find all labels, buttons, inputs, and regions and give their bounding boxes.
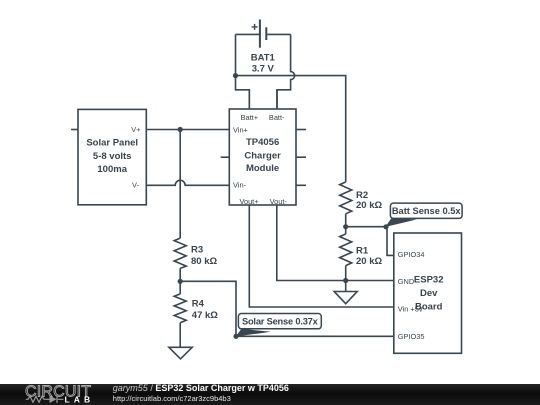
svg-text:garym55 / ESP32 Solar Charger: garym55 / ESP32 Solar Charger w TP4056 [113,383,289,393]
wire battery right down with hop over bus [277,34,295,109]
svg-text:Dev: Dev [420,288,438,299]
node R2/R1 junction [343,224,348,229]
svg-text:Batt+: Batt+ [241,113,258,122]
svg-text:R4: R4 [192,299,205,310]
svg-text:80 kΩ: 80 kΩ [191,256,217,267]
wire solar junction down to R3 [179,130,181,239]
svg-text:R3: R3 [191,244,203,255]
logo diode [50,396,57,403]
svg-text:Module: Module [246,163,279,174]
ESP32 board box [394,233,462,353]
wire solar sense tap to GPIO35 [180,281,394,336]
svg-text:Vout+: Vout+ [239,197,258,206]
battery plus sign [252,24,258,30]
wire solar V- to Vin- with hop [146,180,229,185]
resistor R2 zigzag [340,182,352,214]
battery BAT1 plates [260,20,266,48]
svg-text:Solar Panel: Solar Panel [86,137,138,148]
svg-text:Vout-: Vout- [270,197,288,206]
node battery+ junction [233,73,238,78]
svg-text:5-8 volts: 5-8 volts [93,151,132,162]
svg-text:LAB: LAB [65,395,95,405]
solar panel left stub [71,129,78,131]
wire battery left down to Batt+ [236,34,250,109]
node batt sense anchor [383,224,388,229]
svg-text:Vin +5v: Vin +5v [398,304,423,313]
solar panel box [78,109,146,204]
svg-text:GPIO34: GPIO34 [398,250,425,259]
wire battery top left [236,33,260,35]
svg-text:Vin+: Vin+ [233,126,248,135]
wire TP4056 Batt+ pin [248,90,250,109]
svg-text:R1: R1 [356,246,369,257]
svg-text:Charger: Charger [244,150,281,161]
footer bar [0,384,540,405]
ground symbol right [334,292,357,304]
svg-text:Solar Sense 0.37x: Solar Sense 0.37x [242,317,319,327]
flag Solar Sense 0.37x [236,314,322,337]
TP4056 right stub 1 [296,129,306,131]
svg-text:V-: V- [132,180,140,189]
resistor R1 zigzag [340,234,352,266]
node solar sense anchor [233,334,238,339]
svg-text:100ma: 100ma [97,164,127,175]
wire battery top right [267,33,290,35]
flag Batt Sense 0.5x [386,203,463,227]
node solar V+ junction [178,127,183,132]
node R3/R4 junction [178,279,183,284]
svg-text:47 kΩ: 47 kΩ [192,310,218,321]
svg-text:GND: GND [398,277,414,286]
svg-text:V+: V+ [131,125,140,134]
svg-text:http://circuitlab.com/c72ar3zc: http://circuitlab.com/c72ar3zc9b4b3 [113,394,231,403]
svg-text:20 kΩ: 20 kΩ [356,256,382,267]
svg-text:Batt-: Batt- [269,113,285,122]
wire Vout+ to ESP32 Vin [249,205,393,307]
TP4056 right stub 3 [296,184,306,186]
svg-text:TP4056: TP4056 [246,137,279,148]
wire batt sense tap to GPIO34 [346,227,394,256]
TP4056 left middle stub [221,156,230,158]
wire R2 to R1 [345,214,347,234]
svg-text:BAT1: BAT1 [251,52,276,63]
TP4056 module box [229,109,296,205]
svg-text:ESP32: ESP32 [414,274,444,285]
svg-text:Vin-: Vin- [233,180,247,189]
ground symbol left [169,347,192,359]
wire Vout- to ESP32 GND bus [277,205,394,281]
node R1/GND junction [343,278,348,283]
wire R4 bottom to ground [179,323,181,348]
wire R3 to R4 [179,268,181,294]
logo schematic squiggle [26,396,64,403]
wire TP4056 Batt- pin [276,90,278,109]
svg-text:3.7 V: 3.7 V [252,63,275,74]
svg-text:20 kΩ: 20 kΩ [356,200,382,211]
resistor R3 zigzag [174,238,186,268]
svg-text:Batt Sense 0.5x: Batt Sense 0.5x [392,206,462,216]
svg-text:GPIO35: GPIO35 [398,332,425,341]
wire R1 bottom to ground [345,266,347,292]
wire solar V+ to Vin+ [146,129,229,131]
resistor R4 zigzag [174,294,186,323]
wire bus battery+ to R2 top [236,76,346,182]
TP4056 right stub 2 [296,156,306,158]
